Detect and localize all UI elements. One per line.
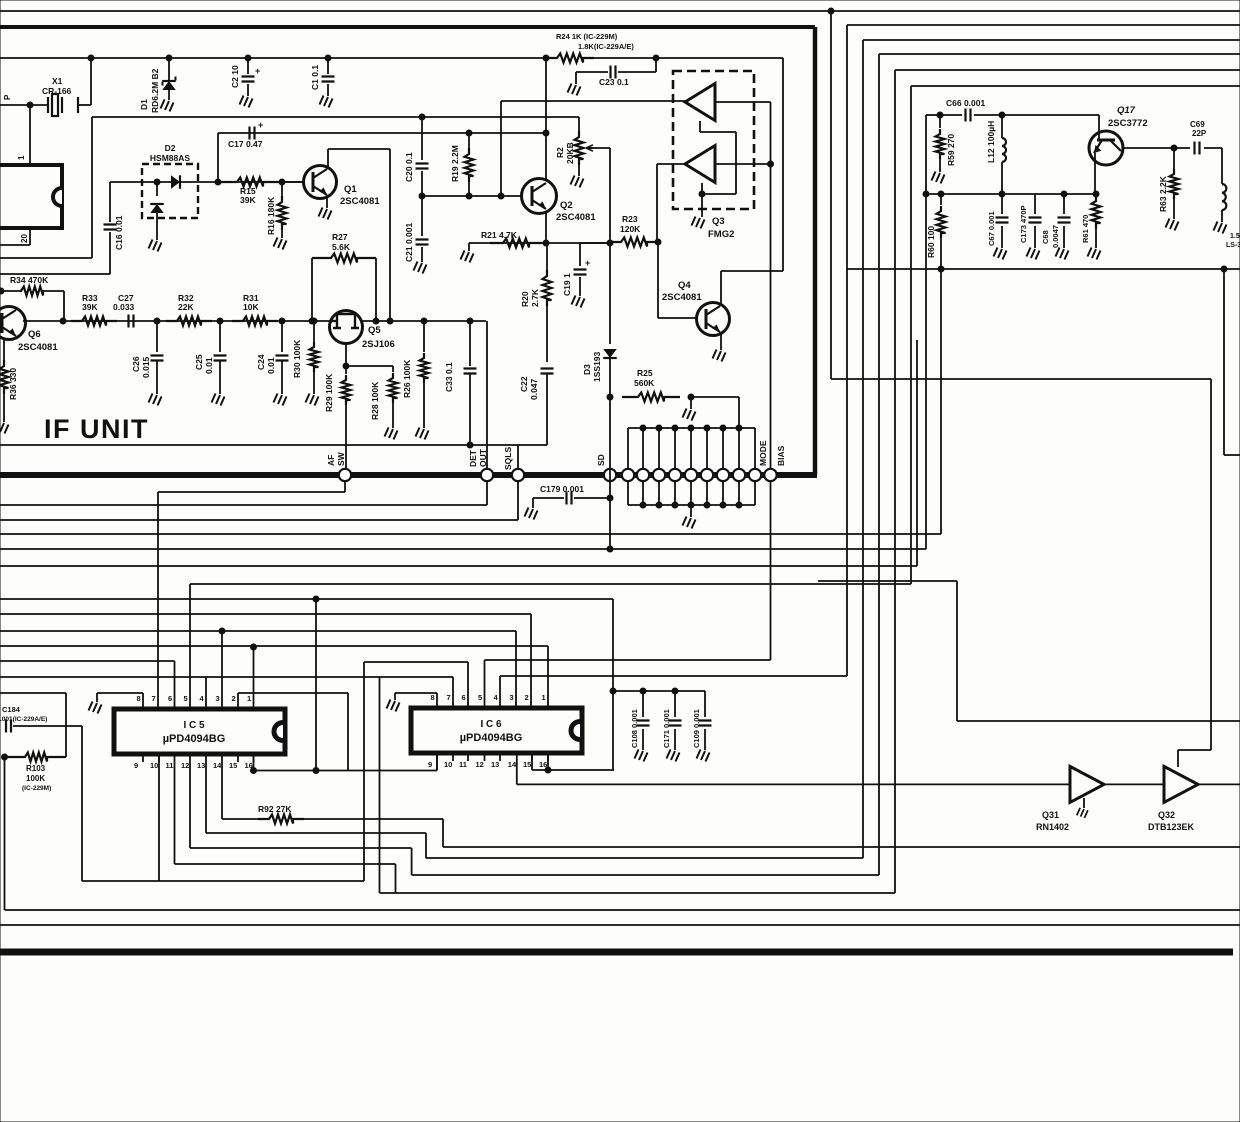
node x316 bottom bbox=[313, 768, 319, 774]
IC5 pin 12 number bbox=[181, 761, 189, 770]
wire R92 step bbox=[443, 819, 1240, 847]
node C27-C26 bbox=[154, 318, 160, 324]
label Q17 type bbox=[1108, 118, 1148, 129]
wire Q32 out bbox=[1198, 783, 1240, 785]
label Q5 bbox=[368, 325, 381, 336]
label FMG2 bbox=[708, 229, 734, 240]
wire IC6 pin9 drop bbox=[436, 761, 438, 771]
svg-text:Q1: Q1 bbox=[344, 184, 357, 195]
label C16 0.01 bbox=[114, 215, 124, 250]
wire nest v4 bbox=[878, 54, 880, 875]
label Q5 type bbox=[362, 339, 395, 350]
node R23 right bbox=[655, 239, 661, 245]
ground IC6 pin8 bbox=[387, 693, 438, 712]
svg-text:R30 100K: R30 100K bbox=[292, 339, 302, 378]
ground R59 bbox=[932, 172, 945, 184]
label R31 10K bbox=[243, 293, 259, 312]
svg-text:12: 12 bbox=[181, 761, 189, 770]
IC6 pin 9 number bbox=[428, 760, 432, 769]
label L12 100uH bbox=[986, 121, 996, 163]
node R63 top bbox=[1171, 145, 1177, 151]
ground Q1 bbox=[319, 208, 332, 220]
svg-text:C67 0.001: C67 0.001 bbox=[987, 211, 996, 246]
svg-text:Q3: Q3 bbox=[712, 216, 725, 227]
label RD6.2MB2 bbox=[150, 68, 160, 113]
label Q1 bbox=[344, 184, 357, 195]
ladder top node bbox=[656, 425, 662, 431]
label R61 470 bbox=[1081, 215, 1090, 243]
ground C67 bbox=[994, 248, 1007, 260]
wire Q1 emitter bbox=[326, 196, 328, 208]
node top rail x831 bbox=[828, 8, 834, 14]
IC6 pin 8 stub bbox=[436, 702, 438, 708]
capacitor C67 0.001 bbox=[996, 194, 1009, 248]
resistor R28 100K bbox=[389, 373, 398, 428]
ladder top node bbox=[640, 425, 646, 431]
wire x957 route bbox=[818, 581, 1240, 721]
node IC5p1 bbox=[251, 644, 257, 650]
svg-text:C173 470P: C173 470P bbox=[1019, 205, 1028, 243]
ground C108 bbox=[635, 750, 648, 762]
svg-text:1SS193: 1SS193 bbox=[592, 351, 602, 382]
wire DET OUT drop bbox=[486, 321, 488, 469]
label R59 270 bbox=[946, 134, 956, 166]
wire IC6 pin15-16 row bbox=[532, 753, 614, 770]
IC6 pin 12 number bbox=[476, 760, 484, 769]
label R20 2.7K bbox=[520, 288, 540, 307]
IC5 pin 9 number bbox=[134, 761, 138, 770]
label R103 val bbox=[26, 774, 45, 783]
bottom border line (thick) bbox=[0, 949, 1233, 956]
svg-text:0.015: 0.015 bbox=[141, 356, 151, 378]
wire nest v1 bbox=[830, 11, 832, 379]
wire nest h5 bbox=[895, 69, 1240, 71]
ground R21 bbox=[461, 243, 474, 263]
svg-text:C26: C26 bbox=[131, 356, 141, 372]
IC6 pin 16 number bbox=[539, 760, 547, 769]
label D2 bbox=[165, 143, 176, 153]
svg-text:SQLS: SQLS bbox=[503, 447, 513, 470]
svg-text:D2: D2 bbox=[165, 143, 176, 153]
svg-text:MODE: MODE bbox=[758, 440, 768, 466]
capacitor C66 0.001 bbox=[966, 109, 971, 122]
svg-text:R61 470: R61 470 bbox=[1081, 215, 1090, 243]
svg-text:22P: 22P bbox=[1192, 129, 1207, 138]
node y269 x1224 bbox=[1221, 266, 1227, 272]
IC5 pin 4 stub bbox=[205, 703, 207, 709]
svg-text:0.0047: 0.0047 bbox=[1051, 225, 1060, 248]
node C171 bbox=[672, 688, 678, 694]
svg-text:R34 470K: R34 470K bbox=[10, 275, 49, 285]
svg-text:+: + bbox=[585, 258, 590, 268]
label Q2 bbox=[560, 200, 573, 211]
capacitor C33 0.1 bbox=[464, 321, 477, 445]
wire nest v3 bbox=[862, 40, 864, 858]
label C23 0.1 bbox=[599, 77, 629, 87]
node R103 left bbox=[2, 754, 8, 760]
label R28 100K bbox=[370, 381, 380, 420]
ladder top rail bbox=[628, 427, 755, 429]
node D2 bbox=[154, 179, 160, 185]
IC6 pin 11 stub bbox=[467, 753, 469, 761]
label C173 470P bbox=[1019, 205, 1028, 243]
label R29 100K bbox=[324, 373, 334, 412]
label C19 1 bbox=[562, 273, 572, 296]
IC6 pin 14 number bbox=[508, 760, 517, 769]
svg-text:C16 0.01: C16 0.01 bbox=[114, 215, 124, 250]
ground IC5 pin8 bbox=[89, 693, 144, 714]
IC5 pin 6 number bbox=[168, 694, 172, 703]
svg-text:R24 1K (IC-229M): R24 1K (IC-229M) bbox=[556, 32, 618, 41]
terminal ladder bbox=[717, 469, 729, 481]
svg-text:DTB123EK: DTB123EK bbox=[1148, 822, 1195, 832]
terminal ladder bbox=[637, 469, 649, 481]
wire Q2 base row y196 bbox=[422, 195, 522, 197]
ground Q3 bbox=[692, 194, 705, 229]
wire top rail full width bbox=[0, 10, 1240, 12]
pin 20 stub left IC bbox=[0, 228, 30, 245]
IC5 pin 7 number bbox=[152, 694, 156, 703]
svg-text:RD6.2M B2: RD6.2M B2 bbox=[150, 68, 160, 113]
wire SQLS line y520 bbox=[0, 481, 518, 520]
IC6 pin 5 stub bbox=[484, 702, 486, 708]
ladder top node bbox=[672, 425, 678, 431]
label IC6 bbox=[480, 719, 502, 730]
terminal ladder bbox=[701, 469, 713, 481]
resistor R24 1K bbox=[546, 54, 594, 63]
svg-text:R2: R2 bbox=[555, 147, 565, 158]
svg-text:C184: C184 bbox=[2, 705, 21, 714]
capacitor C108 0.001 bbox=[637, 691, 650, 750]
wire bus y646 bbox=[0, 646, 548, 703]
IC5 pin 3 stub bbox=[221, 703, 223, 709]
label Q2 type bbox=[556, 212, 596, 223]
wire bus y631 bbox=[0, 631, 516, 703]
node x926 y194 bbox=[923, 191, 929, 197]
label IC5 bbox=[183, 720, 205, 731]
label C20 0.1 bbox=[404, 152, 414, 182]
wire IC6p4 y676 bbox=[500, 676, 847, 703]
inductor L12 100uH bbox=[1002, 115, 1006, 194]
IC5 pin 15 number bbox=[229, 761, 237, 770]
terminal ladder bbox=[653, 469, 665, 481]
terminal DET OUT bbox=[481, 469, 493, 481]
zener diode D1 RD6.2MB2 bbox=[162, 58, 176, 100]
node IC5p3 bbox=[219, 628, 225, 634]
svg-text:13: 13 bbox=[197, 761, 205, 770]
wire x501 up bbox=[500, 101, 502, 196]
svg-text:C23 0.1: C23 0.1 bbox=[599, 77, 629, 87]
label Q6 bbox=[28, 329, 41, 340]
svg-text:9: 9 bbox=[134, 761, 138, 770]
label L13 bbox=[1226, 233, 1240, 249]
label R36 330 bbox=[8, 368, 18, 400]
wire nest v6 bbox=[910, 86, 912, 584]
label R24 1K (IC-229M) bbox=[556, 32, 618, 41]
IF unit bottom bus (thick) bbox=[0, 472, 817, 478]
ground R61 bbox=[1088, 248, 1101, 260]
node C17-D2 bbox=[215, 179, 221, 185]
svg-text:2SC4081: 2SC4081 bbox=[556, 212, 596, 223]
IC5 pin 13 stub bbox=[205, 754, 207, 762]
svg-text:22K: 22K bbox=[178, 302, 194, 312]
IC5 pin 3 number bbox=[216, 694, 220, 703]
ladder rung 1 bbox=[627, 428, 629, 505]
svg-text:R19 2.2M: R19 2.2M bbox=[450, 145, 460, 182]
svg-text:12: 12 bbox=[476, 760, 484, 769]
svg-text:X1: X1 bbox=[52, 76, 63, 86]
label R92 27K bbox=[258, 804, 292, 814]
wire x364 drop bbox=[363, 662, 365, 881]
wire R2 wiper bbox=[593, 148, 610, 243]
wire nest h3 bbox=[863, 39, 1240, 41]
resistor R30 100K bbox=[310, 321, 319, 394]
node Q1 coll - Q5 drain bbox=[387, 318, 393, 324]
svg-text:2: 2 bbox=[525, 693, 529, 702]
IC5 pin 8 number bbox=[137, 694, 141, 703]
svg-text:R103: R103 bbox=[26, 764, 46, 773]
svg-text:µPD4094BG: µPD4094BG bbox=[460, 732, 523, 744]
capacitor C21 0.001 bbox=[416, 196, 429, 262]
svg-text:R60 100: R60 100 bbox=[926, 226, 936, 258]
node rail-R24 bbox=[543, 55, 549, 61]
label C17 0.47 bbox=[228, 139, 263, 149]
resistor R36 330 bbox=[0, 339, 9, 422]
amp A (top, Q3) bbox=[685, 84, 715, 121]
label R60 100 bbox=[926, 226, 936, 258]
wire Q1 collector loop bbox=[328, 149, 390, 321]
resistor R27 5.6K bbox=[312, 254, 376, 322]
svg-text:20: 20 bbox=[20, 234, 29, 243]
svg-text:Q6: Q6 bbox=[28, 329, 41, 340]
ground C21 bbox=[414, 262, 427, 274]
IC6 pin 13 stub bbox=[499, 753, 501, 761]
svg-text:R26 100K: R26 100K bbox=[402, 359, 412, 398]
label SD bbox=[596, 454, 606, 466]
svg-text:100K: 100K bbox=[26, 774, 45, 783]
label 5.6K bbox=[332, 242, 351, 252]
wire IC6 pin5 y660 bbox=[484, 660, 486, 702]
wire IC5 pin16 row bbox=[254, 754, 438, 771]
svg-text:I C 5: I C 5 bbox=[183, 720, 205, 731]
svg-text:3: 3 bbox=[216, 694, 220, 703]
IC6 pin 6 stub bbox=[467, 702, 469, 708]
resistor R63 2.2K bbox=[1170, 148, 1179, 219]
IC5 pin 7 stub bbox=[157, 703, 159, 709]
label C68 0.0047 bbox=[1041, 225, 1060, 248]
ground ladder bbox=[683, 505, 696, 529]
node IC5 pin16 bbox=[251, 768, 257, 774]
svg-text:6: 6 bbox=[168, 694, 172, 703]
IC6 pin 15 stub bbox=[531, 753, 533, 761]
ground Q4 bbox=[713, 350, 726, 362]
resistor R60 100 bbox=[937, 194, 946, 269]
node R27 left bbox=[309, 318, 315, 324]
ground C109 bbox=[697, 750, 710, 762]
label Q32 bbox=[1158, 810, 1175, 820]
IC6 pin 1 stub bbox=[547, 702, 549, 708]
amp B (bottom, Q3) bbox=[685, 146, 715, 183]
IC5 pin 2 stub bbox=[237, 703, 239, 709]
svg-text:C179 0.001: C179 0.001 bbox=[540, 484, 584, 494]
label R32 22K bbox=[178, 293, 194, 312]
terminal ladder bbox=[622, 469, 634, 481]
capacitor C173 470P bbox=[1029, 194, 1042, 248]
svg-text:11: 11 bbox=[166, 761, 174, 770]
node D3-R25-SD bbox=[607, 394, 613, 400]
wire IC5p1 drop bbox=[253, 647, 255, 703]
capacitor C184 .001 bbox=[6, 720, 82, 882]
svg-text:9: 9 bbox=[428, 760, 432, 769]
ground C1 bbox=[320, 96, 333, 108]
wire nest v5 bbox=[894, 70, 896, 893]
wire X1 up leg bbox=[90, 58, 92, 105]
label R26 100K bbox=[402, 359, 412, 398]
IC5 pin 14 stub bbox=[221, 754, 223, 762]
node R61 top bbox=[1093, 191, 1099, 197]
svg-text:2.7K: 2.7K bbox=[530, 288, 540, 307]
capacitor C22 0.047 bbox=[541, 369, 554, 446]
label IF UNIT bbox=[44, 414, 149, 444]
wire inner bottom y258 to edge bbox=[0, 257, 92, 259]
resistor R103 100K bbox=[6, 753, 66, 762]
svg-text:11: 11 bbox=[459, 760, 467, 769]
transistor Q2 2SC4081 bbox=[522, 179, 557, 214]
ground D1 bbox=[161, 100, 174, 112]
label R25 560K bbox=[634, 368, 655, 388]
svg-text:µPD4094BG: µPD4094BG bbox=[163, 733, 226, 745]
terminal SD bbox=[604, 469, 616, 481]
resistor R15 39K bbox=[218, 178, 282, 187]
svg-text:2SC4081: 2SC4081 bbox=[662, 292, 702, 303]
wire nest v2 bbox=[846, 25, 848, 676]
svg-text:R21 4.7K: R21 4.7K bbox=[481, 230, 518, 240]
node Q5 source bbox=[343, 363, 349, 369]
IC5 pin 11 stub bbox=[174, 754, 176, 762]
ladder top node bbox=[720, 425, 726, 431]
svg-text:C1 0.1: C1 0.1 bbox=[310, 65, 320, 90]
node R32-C25 bbox=[217, 318, 223, 324]
wire IC5p3 drop bbox=[221, 631, 223, 703]
svg-text:D1: D1 bbox=[139, 99, 149, 110]
svg-text:6: 6 bbox=[462, 693, 466, 702]
IC5 pin 16 number bbox=[245, 761, 253, 770]
label Q4 bbox=[678, 280, 691, 291]
node Q2em y243 bbox=[543, 240, 549, 246]
Q3 FMG2 dashed box bbox=[673, 71, 754, 209]
svg-text:C69: C69 bbox=[1190, 120, 1205, 129]
label C108 0.001 bbox=[630, 709, 639, 748]
transistor Q17 2SC3772 bbox=[1089, 131, 1123, 165]
svg-text:R23: R23 bbox=[622, 214, 638, 224]
node rail-X1 bbox=[88, 55, 94, 61]
wire Q4 collector bbox=[721, 58, 783, 305]
ground L13 bbox=[1214, 222, 1227, 234]
svg-text:LS-3: LS-3 bbox=[1226, 242, 1240, 249]
svg-text:5: 5 bbox=[478, 693, 482, 702]
label R21 4.7K bbox=[481, 230, 518, 240]
svg-text:20KB: 20KB bbox=[565, 142, 575, 164]
ground C24 bbox=[274, 394, 287, 406]
svg-text:SD: SD bbox=[596, 454, 606, 466]
svg-text:5.6K: 5.6K bbox=[332, 242, 351, 252]
label CR-166 bbox=[42, 86, 72, 96]
label C26 0.015 bbox=[131, 356, 151, 378]
wire v x926 bbox=[925, 115, 927, 549]
IC5 pin 16 stub bbox=[253, 754, 255, 762]
wire IC6 pin14 line bbox=[517, 761, 1070, 784]
node SD y549 bbox=[607, 546, 613, 552]
svg-text:10: 10 bbox=[444, 760, 452, 769]
resistor R32 22K bbox=[166, 317, 212, 326]
ground R28 bbox=[385, 428, 398, 440]
svg-text:P: P bbox=[3, 94, 12, 100]
IC6 pin 2 number bbox=[525, 693, 529, 702]
label R15 bbox=[240, 186, 256, 196]
node C33 top bbox=[467, 318, 473, 324]
label SQLS bbox=[503, 447, 513, 470]
svg-text:D3: D3 bbox=[582, 364, 592, 375]
node R15-R16 bbox=[279, 179, 285, 185]
wire C66 mid bbox=[940, 114, 1002, 116]
capacitor C68 0.0047 bbox=[1058, 194, 1071, 248]
IC (partial, left edge) body bbox=[0, 165, 62, 228]
wire out y269 bbox=[846, 268, 1240, 270]
wire bus y566 bbox=[0, 565, 917, 567]
resistor R21 4.7K bbox=[490, 239, 542, 248]
IC5 pin 13 number bbox=[197, 761, 205, 770]
IC6 pin 10 stub bbox=[452, 753, 454, 761]
svg-text:Q17: Q17 bbox=[1117, 105, 1136, 116]
ground R2 bbox=[571, 176, 584, 188]
label R19 2.2M bbox=[450, 145, 460, 182]
wire R16 to Q1 bbox=[282, 181, 304, 183]
resistor R31 10K bbox=[232, 317, 278, 326]
label BIAS bbox=[776, 445, 786, 466]
wire DET OUT line y505 bbox=[0, 481, 487, 505]
svg-text:120K: 120K bbox=[620, 224, 641, 234]
label C22 0.047 bbox=[519, 376, 539, 400]
svg-text:SW: SW bbox=[336, 451, 346, 466]
capacitor C179 0.001 bbox=[525, 492, 611, 520]
label C179 0.001 bbox=[540, 484, 584, 494]
label D1 bbox=[139, 99, 149, 110]
IC5 pin 10 stub bbox=[158, 754, 160, 762]
capacitor C24 0.01 bbox=[276, 321, 289, 394]
transistor Q1 2SC4081 bbox=[304, 166, 337, 199]
svg-text:R27: R27 bbox=[332, 232, 348, 242]
wire Q4 base bbox=[658, 242, 696, 318]
label C24 0.01 bbox=[256, 354, 276, 374]
label D3 1SS193 bbox=[582, 351, 602, 382]
resistor R19 2.2M bbox=[465, 133, 474, 196]
label Q31 bbox=[1042, 810, 1059, 820]
wire R24 right bbox=[594, 57, 656, 59]
ground Q31 bbox=[1077, 798, 1088, 818]
wire v x917 bbox=[916, 340, 918, 566]
svg-text:3: 3 bbox=[510, 693, 514, 702]
svg-text:(IC-229M): (IC-229M) bbox=[22, 785, 51, 792]
label Q6 type bbox=[18, 342, 58, 353]
svg-text:I C 6: I C 6 bbox=[480, 719, 502, 730]
node y599 x316 bbox=[313, 596, 319, 602]
ladder bottom node bbox=[656, 502, 662, 508]
label Q3 bbox=[712, 216, 725, 227]
IC6 pin 6 number bbox=[462, 693, 466, 702]
buffer Q32 DTB123EK bbox=[1164, 766, 1198, 802]
wire inner top y117 bbox=[92, 116, 579, 118]
node Q2 coll - C17 bbox=[543, 130, 549, 136]
